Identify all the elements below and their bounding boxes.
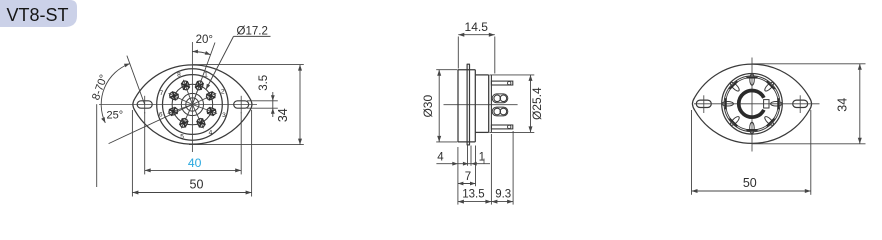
svg-text:7: 7 — [160, 90, 164, 97]
svg-text:50: 50 — [190, 177, 204, 191]
svg-text:9.3: 9.3 — [495, 188, 511, 200]
svg-text:25°: 25° — [106, 110, 123, 122]
svg-text:40: 40 — [188, 156, 202, 170]
svg-text:Ø25.4: Ø25.4 — [530, 87, 544, 120]
svg-text:3.5: 3.5 — [258, 75, 270, 91]
svg-text:7: 7 — [465, 171, 471, 183]
svg-text:20°: 20° — [196, 34, 213, 46]
svg-text:2: 2 — [221, 88, 225, 95]
svg-text:34: 34 — [276, 108, 290, 122]
svg-text:5: 5 — [180, 133, 184, 140]
svg-text:3: 3 — [222, 112, 226, 119]
svg-text:4: 4 — [209, 130, 213, 137]
svg-text:8: 8 — [177, 72, 181, 79]
svg-text:13.5: 13.5 — [462, 188, 484, 200]
svg-text:34: 34 — [835, 98, 849, 112]
svg-text:Ø17.2: Ø17.2 — [237, 26, 268, 38]
svg-text:VT8-ST: VT8-ST — [7, 5, 69, 25]
svg-text:4: 4 — [437, 152, 444, 164]
svg-text:14.5: 14.5 — [465, 20, 489, 34]
svg-text:50: 50 — [743, 176, 757, 190]
svg-text:1: 1 — [204, 72, 208, 79]
svg-text:Ø30: Ø30 — [421, 95, 435, 118]
svg-text:6: 6 — [159, 112, 163, 119]
